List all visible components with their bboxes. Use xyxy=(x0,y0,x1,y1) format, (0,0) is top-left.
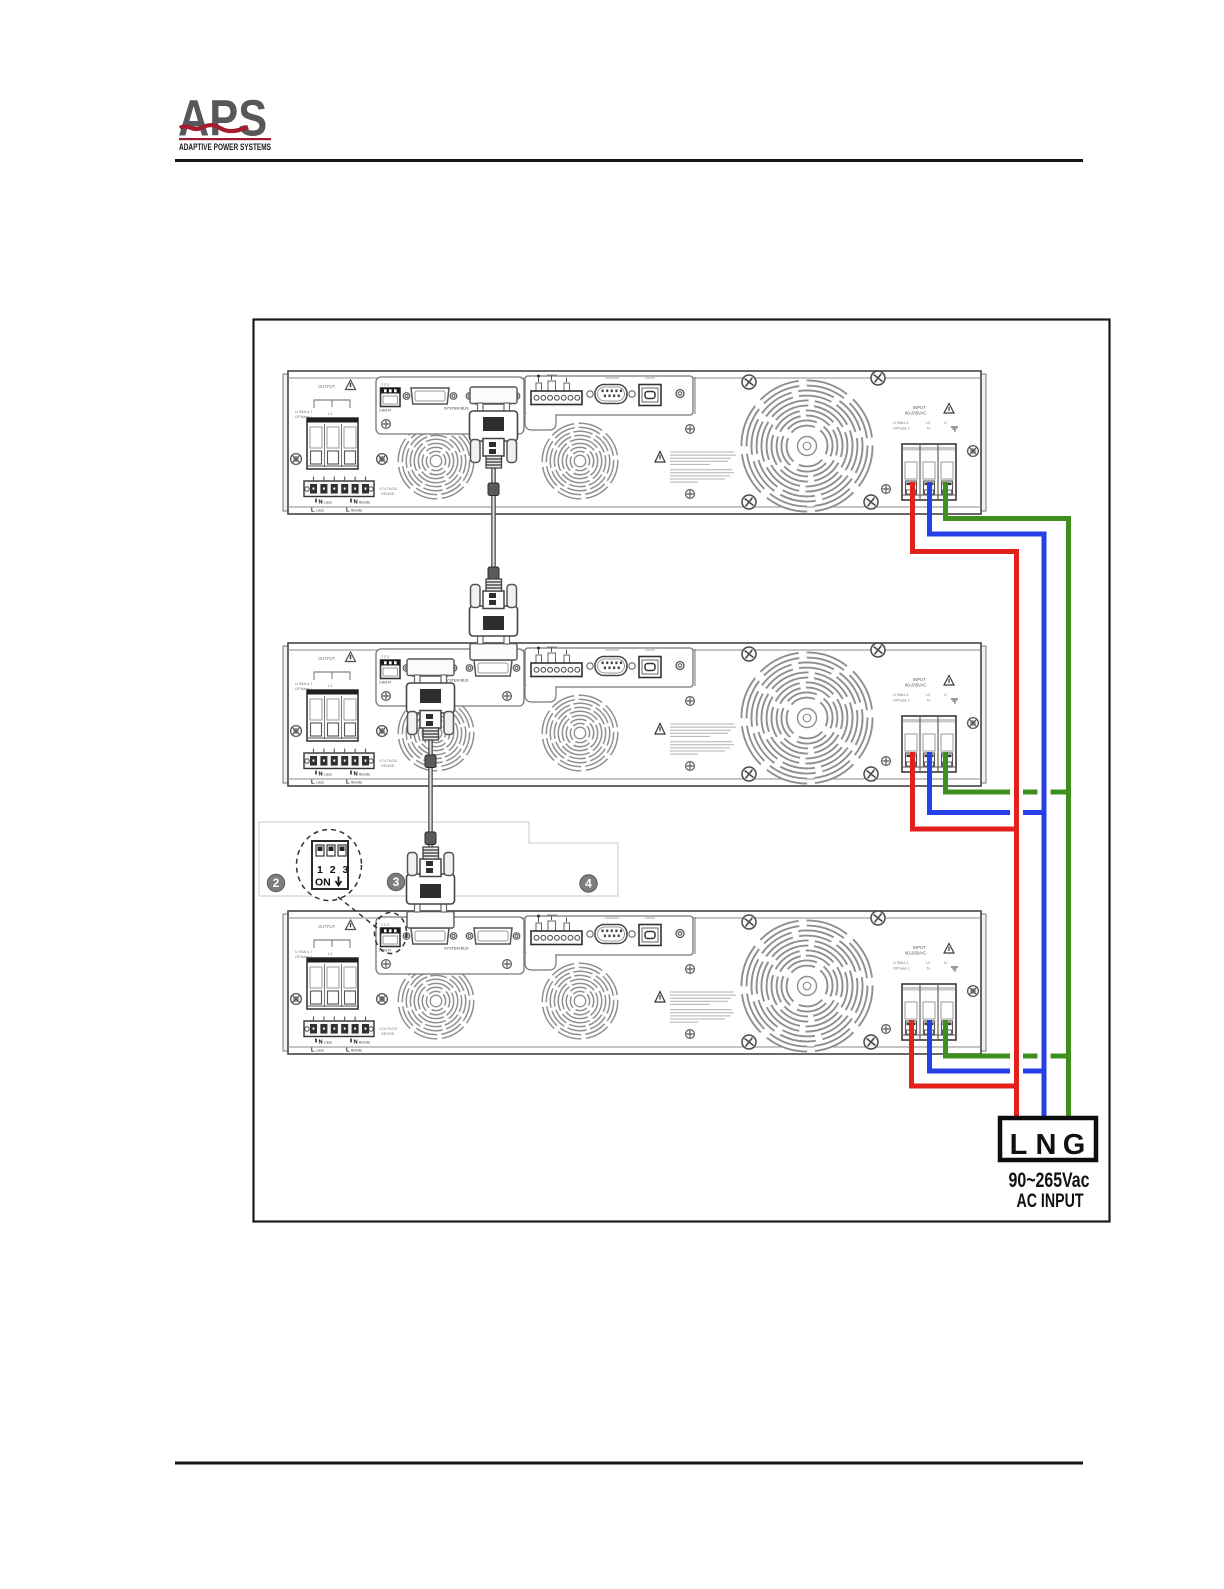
diagram frame xyxy=(254,320,1110,1222)
system bus cable 1 (unit1 to unit2) xyxy=(491,462,496,606)
ferrite bead cable1 lower xyxy=(488,567,499,580)
PSU unit 2 rear panel xyxy=(283,642,986,786)
PSU unit 3 rear panel xyxy=(283,910,986,1054)
DIP switch SW1 xyxy=(312,841,350,889)
ferrite bead cable2 upper xyxy=(425,755,436,768)
red line wire L bus xyxy=(912,482,1017,1119)
DVI plug on unit1 SYSTEM BUS port xyxy=(470,387,518,468)
wire G unit1 to LNG bus xyxy=(946,482,1069,1119)
step badge 3 xyxy=(387,873,404,890)
svg-text:1 2 3: 1 2 3 xyxy=(317,864,350,876)
header rule xyxy=(175,159,1083,162)
blue neutral wire N bus xyxy=(930,482,1045,1119)
dashed leader line xyxy=(338,897,377,928)
AC input terminal L N G xyxy=(1000,1118,1096,1161)
step badge 4 xyxy=(580,875,597,892)
wire L unit1 to LNG bus xyxy=(913,482,1017,1119)
wire L unit3 stub xyxy=(912,1020,1015,1086)
footer rule xyxy=(175,1462,1083,1465)
svg-text:ON: ON xyxy=(315,877,331,889)
wire L unit2 stub xyxy=(913,752,1015,829)
callout panel right xyxy=(529,843,618,896)
system bus cable 2 (unit2 to unit3) xyxy=(428,736,433,876)
green ground wire G bus xyxy=(946,482,1069,1119)
dashed ellipse on CAN-R of unit 3 xyxy=(375,913,407,954)
ferrite bead cable1 upper xyxy=(488,483,499,496)
wire N unit2 stub xyxy=(930,752,1042,813)
svg-text:2: 2 xyxy=(273,876,280,890)
wire L crossing casing xyxy=(1010,552,1023,1117)
svg-text:ADAPTIVE POWER SYSTEMS: ADAPTIVE POWER SYSTEMS xyxy=(179,142,271,152)
svg-text:90~265Vac: 90~265Vac xyxy=(1009,1169,1090,1192)
DVI plug entering unit2 port from above xyxy=(470,579,518,660)
step badge 2 xyxy=(267,874,284,891)
wire G unit2 stub xyxy=(946,752,1067,792)
wire N unit1 to LNG bus xyxy=(930,482,1045,1119)
ferrite bead cable2 lower xyxy=(425,832,436,845)
svg-text:AC INPUT: AC INPUT xyxy=(1017,1191,1084,1212)
svg-text:3: 3 xyxy=(393,875,400,889)
wire N unit3 stub xyxy=(930,1020,1042,1071)
wire N crossing casing xyxy=(1038,534,1051,1116)
svg-text:N: N xyxy=(1036,1129,1057,1161)
svg-text:L: L xyxy=(1010,1129,1028,1161)
DVI plug entering unit3 port from above xyxy=(407,847,455,928)
APS logo xyxy=(178,90,271,152)
PSU unit 1 rear panel xyxy=(283,370,986,514)
DIP switch callout circle xyxy=(297,830,362,901)
svg-text:4: 4 xyxy=(585,877,592,891)
DVI plug on unit2 SYSTEM BUS port xyxy=(407,659,455,740)
svg-text:G: G xyxy=(1063,1129,1086,1161)
callout panel xyxy=(259,822,529,896)
wire G unit3 stub xyxy=(946,1020,1067,1056)
